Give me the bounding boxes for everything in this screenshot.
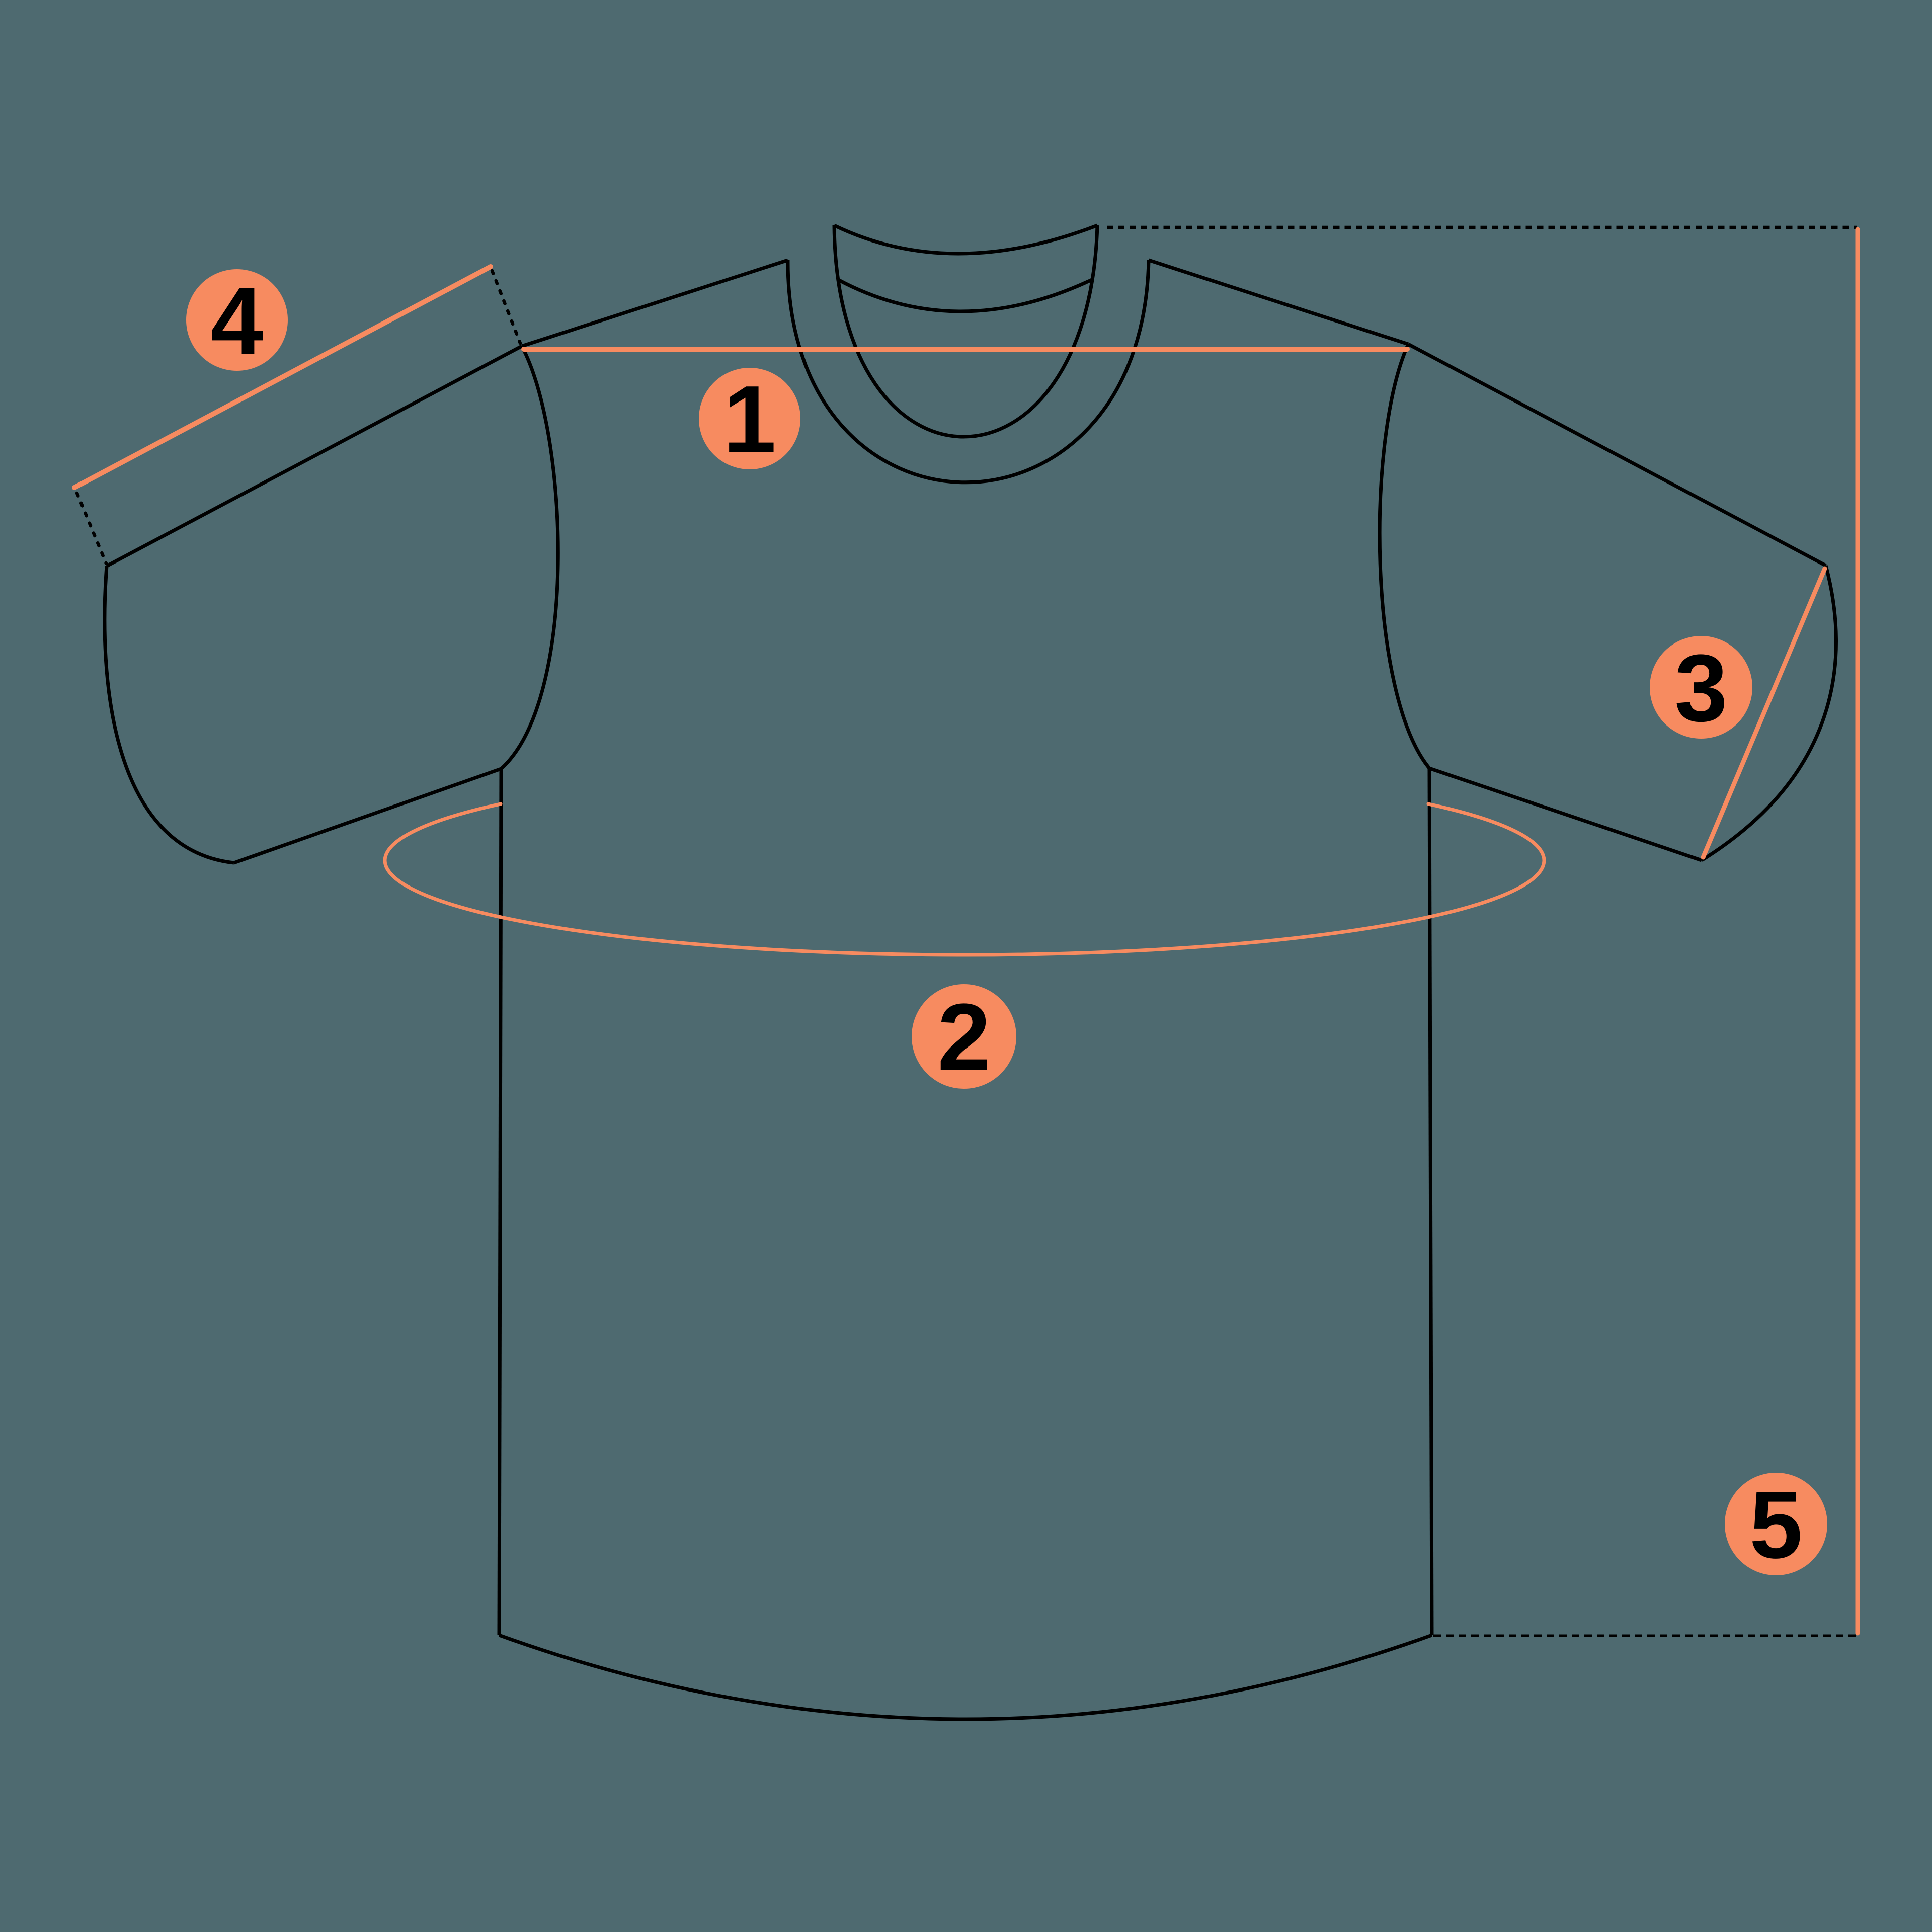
t-shirt right armhole: [1380, 344, 1429, 768]
collar back bottom curve: [838, 280, 1092, 311]
svg-text:1: 1: [723, 366, 776, 473]
measurement line 1 chest width: [524, 347, 1407, 352]
dashed guide top: [1107, 226, 1857, 229]
label circle 1: [699, 368, 800, 469]
t-shirt hem: [499, 1635, 1432, 1719]
collar back top curve: [834, 225, 1097, 254]
svg-text:2: 2: [937, 984, 991, 1091]
dotted connector left shoulder: [492, 271, 520, 343]
svg-text:4: 4: [210, 268, 264, 374]
t-shirt right shoulder seam: [1149, 260, 1408, 344]
t-shirt left shoulder seam: [522, 260, 788, 346]
t-shirt left armhole: [501, 346, 558, 769]
t-shirt left sleeve under seam: [234, 769, 501, 863]
dotted connector left cuff: [77, 493, 106, 563]
label circle 5: [1725, 1473, 1827, 1575]
measurement line 5 body length: [1856, 229, 1860, 1633]
dashed guide bottom: [1433, 1635, 1857, 1637]
label circle 2: [912, 984, 1016, 1089]
t-shirt right sleeve top seam: [1408, 344, 1826, 566]
t-shirt left sleeve top seam: [107, 346, 522, 566]
label circle 4: [186, 269, 288, 371]
collar inner U: [834, 225, 1097, 437]
label circle 3: [1650, 636, 1752, 739]
t-shirt left body side: [499, 769, 501, 1635]
measurement ellipse 2 upper left arc: [385, 804, 501, 860]
svg-text:3: 3: [1674, 635, 1728, 742]
t-shirt right body side: [1429, 768, 1432, 1635]
measurement ellipse 2 upper right arc: [1428, 804, 1544, 860]
collar outer U: [788, 260, 1149, 482]
t-shirt left cuff edge: [105, 566, 234, 863]
t-shirt right sleeve under seam: [1429, 768, 1702, 860]
measurement line 4 shoulder sleeve: [74, 267, 491, 488]
svg-text:5: 5: [1749, 1472, 1803, 1578]
measurement line 3 sleeve cuff: [1703, 569, 1825, 857]
measurement ellipse 2 lower arc: [385, 860, 1544, 955]
t-shirt right cuff edge: [1702, 566, 1836, 860]
